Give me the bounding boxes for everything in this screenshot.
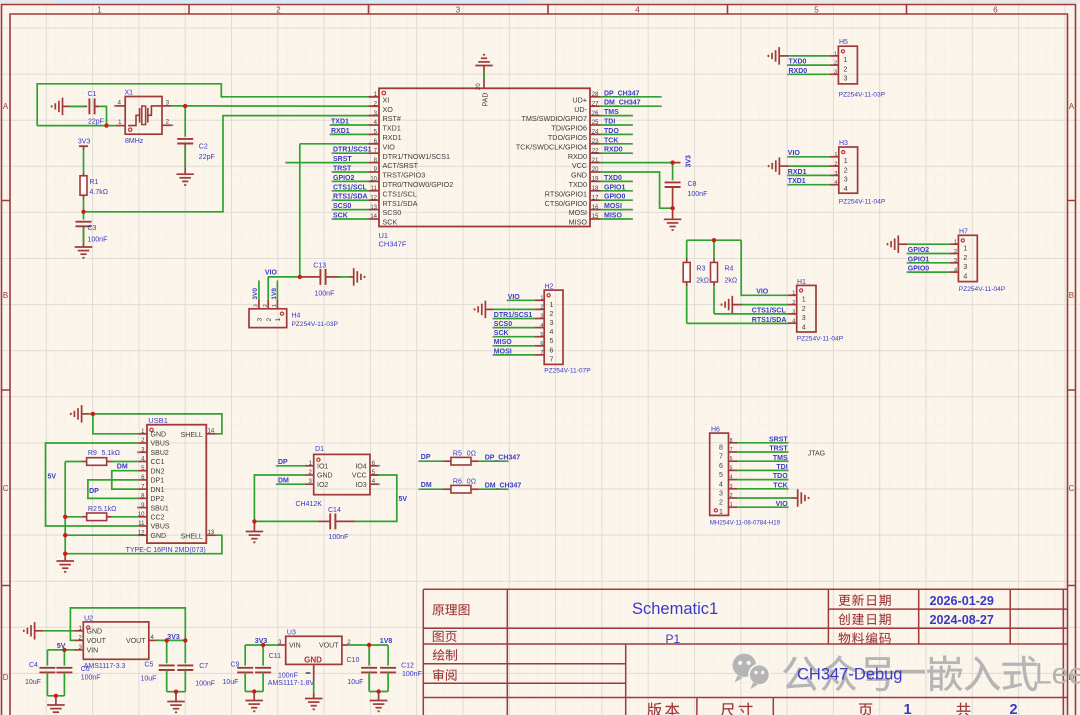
svg-text:24: 24 — [592, 130, 599, 136]
svg-text:22pF: 22pF — [199, 154, 215, 161]
svg-text:3: 3 — [844, 177, 848, 184]
svg-text:3V3: 3V3 — [167, 634, 180, 641]
svg-text:100nF: 100nF — [402, 671, 422, 678]
svg-text:MISO: MISO — [569, 218, 588, 227]
svg-text:TYPE-C 16PIN 2MD(073): TYPE-C 16PIN 2MD(073) — [126, 547, 206, 554]
svg-text:6: 6 — [550, 347, 554, 354]
svg-text:DTR0/TNOW0/GPIO2: DTR0/TNOW0/GPIO2 — [383, 180, 454, 189]
svg-text:SRST: SRST — [333, 156, 352, 163]
svg-text:1: 1 — [834, 152, 837, 158]
svg-text:10uF: 10uF — [223, 679, 239, 686]
svg-text:DP_CH347: DP_CH347 — [485, 455, 521, 462]
svg-text:MISO: MISO — [604, 213, 622, 220]
svg-text:X1: X1 — [125, 89, 134, 96]
svg-text:VIN: VIN — [87, 648, 99, 655]
svg-text:4: 4 — [635, 5, 640, 14]
svg-text:8: 8 — [730, 438, 733, 444]
svg-text:GND: GND — [151, 533, 167, 540]
svg-text:12: 12 — [370, 195, 377, 201]
svg-text:TMS/SWDIO/GPIO7: TMS/SWDIO/GPIO7 — [522, 114, 588, 123]
svg-text:SCS0: SCS0 — [494, 321, 512, 328]
svg-text:SBU2: SBU2 — [151, 450, 169, 457]
svg-text:C: C — [3, 484, 9, 493]
svg-text:4: 4 — [792, 319, 795, 325]
svg-text:23: 23 — [592, 139, 599, 145]
svg-text:3: 3 — [834, 171, 837, 177]
svg-text:3: 3 — [456, 5, 461, 14]
svg-text:SHELL: SHELL — [181, 533, 203, 540]
svg-text:100nF: 100nF — [88, 236, 108, 243]
svg-text:5.1kΩ: 5.1kΩ — [98, 506, 116, 513]
svg-text:C8: C8 — [688, 181, 697, 188]
svg-text:R5: R5 — [453, 450, 462, 457]
svg-text:2: 2 — [550, 311, 554, 318]
svg-text:PZ254V-11-04P: PZ254V-11-04P — [959, 286, 1006, 293]
svg-text:VOUT: VOUT — [126, 638, 146, 645]
svg-text:VCC: VCC — [352, 473, 367, 480]
svg-text:SCS0: SCS0 — [333, 203, 351, 210]
svg-text:C3: C3 — [88, 225, 97, 232]
svg-text:1: 1 — [834, 51, 837, 57]
svg-text:2: 2 — [540, 305, 543, 311]
svg-text:5V: 5V — [399, 496, 408, 503]
svg-text:R9: R9 — [88, 450, 97, 457]
svg-text:VCC: VCC — [572, 161, 587, 170]
svg-text:CC2: CC2 — [151, 514, 165, 521]
svg-text:2: 2 — [844, 167, 848, 174]
svg-text:H4: H4 — [292, 312, 301, 319]
svg-text:3: 3 — [254, 304, 260, 307]
svg-text:7: 7 — [730, 447, 733, 453]
svg-text:PZ254V-11-03P: PZ254V-11-03P — [839, 92, 886, 99]
svg-text:C9: C9 — [231, 662, 240, 669]
svg-text:2: 2 — [792, 300, 795, 306]
svg-text:TRST: TRST — [333, 166, 352, 173]
svg-text:DTR1/SCS1: DTR1/SCS1 — [333, 147, 372, 154]
svg-text:100nF: 100nF — [81, 675, 101, 682]
svg-text:100nF: 100nF — [278, 672, 298, 679]
svg-text:C10: C10 — [347, 657, 360, 664]
svg-text:1V8: 1V8 — [380, 638, 393, 645]
svg-text:2: 2 — [263, 304, 269, 307]
svg-text:IO1: IO1 — [317, 464, 328, 471]
svg-text:MH254V-11-08-0784-H19: MH254V-11-08-0784-H19 — [710, 519, 781, 526]
svg-text:RXD0: RXD0 — [568, 152, 587, 161]
svg-text:C14: C14 — [328, 507, 341, 514]
svg-text:B: B — [3, 291, 8, 300]
svg-text:6: 6 — [540, 341, 543, 347]
svg-text:SRST: SRST — [769, 436, 788, 443]
svg-text:3: 3 — [792, 309, 795, 315]
svg-text:MOSI: MOSI — [604, 203, 622, 210]
svg-text:DP_CH347: DP_CH347 — [604, 90, 640, 97]
svg-text:VIO: VIO — [788, 150, 801, 157]
svg-text:2: 2 — [276, 5, 281, 14]
svg-text:GPIO1: GPIO1 — [604, 184, 626, 191]
svg-text:5: 5 — [814, 5, 819, 14]
svg-text:DN2: DN2 — [151, 468, 165, 475]
svg-text:3V3: 3V3 — [686, 155, 693, 168]
svg-text:DP1: DP1 — [151, 478, 165, 485]
svg-text:A: A — [3, 102, 9, 111]
svg-text:PZ254V-11-04P: PZ254V-11-04P — [839, 199, 886, 206]
svg-text:MOSI: MOSI — [569, 208, 587, 217]
svg-text:TXD0: TXD0 — [604, 175, 622, 182]
svg-text:H6: H6 — [711, 426, 720, 433]
svg-text:4: 4 — [834, 180, 837, 186]
svg-text:C11: C11 — [269, 653, 281, 660]
svg-text:RXD0: RXD0 — [789, 68, 808, 75]
svg-text:1: 1 — [97, 5, 102, 14]
svg-text:TRST/GPIO3: TRST/GPIO3 — [383, 171, 426, 180]
svg-text:11: 11 — [138, 521, 145, 527]
svg-text:5: 5 — [550, 338, 554, 345]
svg-text:PZ254V-11-04P: PZ254V-11-04P — [797, 335, 844, 342]
svg-text:1: 1 — [275, 318, 282, 322]
svg-text:RXD1: RXD1 — [331, 128, 350, 135]
svg-text:4: 4 — [954, 268, 957, 274]
svg-text:DM: DM — [278, 477, 289, 484]
svg-text:2026-01-29: 2026-01-29 — [930, 594, 994, 608]
svg-text:2: 2 — [266, 318, 273, 322]
svg-text:VBUS: VBUS — [151, 441, 170, 448]
svg-text:3: 3 — [834, 70, 837, 76]
svg-text:1: 1 — [963, 246, 967, 253]
svg-text:2: 2 — [730, 493, 733, 499]
svg-text:VIO: VIO — [508, 294, 521, 301]
svg-text:U2: U2 — [84, 615, 93, 622]
svg-text:11: 11 — [371, 186, 378, 192]
svg-text:3V0: 3V0 — [252, 288, 259, 300]
svg-text:100nF: 100nF — [195, 680, 215, 687]
svg-text:2: 2 — [1010, 702, 1018, 715]
svg-text:10uF: 10uF — [141, 676, 157, 683]
svg-text:5.1kΩ: 5.1kΩ — [102, 450, 120, 457]
svg-text:16: 16 — [592, 205, 599, 211]
svg-text:DP: DP — [421, 454, 431, 461]
svg-text:10uF: 10uF — [25, 679, 41, 686]
svg-text:CC1: CC1 — [151, 459, 165, 466]
svg-text:C12: C12 — [401, 663, 414, 670]
svg-text:H7: H7 — [959, 229, 968, 236]
svg-text:PZ254V-11-03P: PZ254V-11-03P — [292, 321, 339, 328]
svg-text:100nF: 100nF — [315, 290, 335, 297]
svg-text:PZ254V-11-07P: PZ254V-11-07P — [544, 367, 591, 374]
svg-text:C2: C2 — [199, 143, 208, 150]
svg-text:3: 3 — [963, 264, 967, 271]
svg-text:4: 4 — [550, 329, 554, 336]
svg-text:19: 19 — [592, 177, 599, 183]
svg-text:VIN: VIN — [289, 643, 301, 650]
svg-text:GND: GND — [317, 473, 333, 480]
svg-text:8MHz: 8MHz — [125, 138, 144, 145]
svg-text:10: 10 — [370, 177, 377, 183]
svg-text:1: 1 — [792, 291, 795, 297]
svg-text:CTS0/GPIO0: CTS0/GPIO0 — [545, 199, 587, 208]
svg-text:TXD0: TXD0 — [789, 59, 807, 66]
svg-text:VIO: VIO — [383, 142, 396, 151]
svg-text:2024-08-27: 2024-08-27 — [930, 613, 994, 627]
svg-text:7: 7 — [550, 356, 554, 363]
svg-text:1: 1 — [904, 702, 912, 715]
svg-text:TDO: TDO — [773, 473, 788, 480]
svg-text:PAD: PAD — [483, 93, 490, 107]
svg-text:5: 5 — [719, 472, 723, 479]
svg-text:UD-: UD- — [574, 105, 587, 114]
svg-text:R6: R6 — [453, 478, 462, 485]
svg-text:IO2: IO2 — [317, 482, 328, 489]
svg-text:18: 18 — [592, 186, 599, 192]
svg-text:100nF: 100nF — [688, 191, 708, 198]
svg-text:3: 3 — [954, 258, 957, 264]
svg-text:0Ω: 0Ω — [467, 450, 476, 457]
svg-text:GND: GND — [571, 171, 587, 180]
svg-text:5V: 5V — [48, 474, 57, 481]
svg-text:17: 17 — [592, 195, 599, 201]
svg-text:3: 3 — [540, 314, 543, 320]
svg-text:14: 14 — [370, 214, 377, 220]
svg-text:MISO: MISO — [494, 339, 512, 346]
svg-text:RTS1/SDA: RTS1/SDA — [752, 317, 787, 324]
svg-text:3: 3 — [257, 318, 264, 322]
svg-text:TXD1: TXD1 — [331, 119, 349, 126]
svg-text:2: 2 — [963, 255, 967, 262]
svg-text:SCK: SCK — [383, 218, 398, 227]
svg-text:RTS1/SDA: RTS1/SDA — [383, 199, 418, 208]
svg-text:3: 3 — [550, 320, 554, 327]
svg-text:DM_CH347: DM_CH347 — [485, 483, 522, 490]
svg-text:8: 8 — [719, 445, 723, 452]
svg-text:CH347-Debug: CH347-Debug — [797, 666, 902, 684]
svg-text:2: 2 — [834, 162, 837, 168]
svg-text:DP: DP — [278, 459, 288, 466]
svg-text:3: 3 — [730, 484, 733, 490]
svg-text:USB1: USB1 — [148, 416, 168, 425]
svg-text:VOUT: VOUT — [319, 643, 339, 650]
svg-text:TXD0: TXD0 — [569, 180, 587, 189]
svg-text:10: 10 — [138, 512, 145, 518]
svg-text:B: B — [1069, 291, 1074, 300]
svg-text:1: 1 — [802, 297, 806, 304]
svg-text:R3: R3 — [696, 265, 705, 272]
svg-text:1: 1 — [540, 296, 543, 302]
svg-text:DM_CH347: DM_CH347 — [604, 100, 641, 107]
svg-text:TDI: TDI — [604, 119, 615, 126]
svg-text:20: 20 — [592, 167, 599, 173]
svg-text:CH347F: CH347F — [379, 240, 407, 249]
svg-text:GND: GND — [87, 629, 103, 636]
svg-text:C13: C13 — [313, 262, 326, 269]
svg-text:100nF: 100nF — [329, 534, 349, 541]
svg-text:P1: P1 — [666, 632, 681, 646]
svg-text:2: 2 — [954, 249, 957, 255]
svg-text:TCK: TCK — [773, 482, 787, 489]
svg-text:DN1: DN1 — [151, 487, 165, 494]
svg-text:TCK: TCK — [604, 137, 618, 144]
svg-text:JTAG: JTAG — [808, 451, 825, 458]
svg-text:10uF: 10uF — [347, 679, 363, 686]
svg-text:4: 4 — [719, 481, 723, 488]
svg-text:1: 1 — [954, 240, 957, 246]
svg-text:0Ω: 0Ω — [467, 478, 476, 485]
svg-text:RST#: RST# — [383, 114, 401, 123]
svg-text:3: 3 — [719, 491, 723, 498]
svg-text:GND: GND — [151, 432, 167, 439]
svg-text:25: 25 — [592, 120, 599, 126]
svg-text:28: 28 — [592, 92, 599, 98]
svg-text:TXD1: TXD1 — [788, 178, 806, 185]
svg-text:CTS1/SCL: CTS1/SCL — [752, 307, 787, 314]
svg-text:H5: H5 — [839, 39, 848, 46]
svg-text:6: 6 — [719, 463, 723, 470]
svg-text:VIO: VIO — [265, 270, 278, 277]
svg-text:GPIO2: GPIO2 — [908, 247, 930, 254]
svg-text:GND: GND — [304, 655, 322, 664]
svg-text:6: 6 — [993, 5, 998, 14]
svg-text:2: 2 — [719, 500, 723, 507]
svg-text:CTS1/SCL: CTS1/SCL — [333, 184, 368, 191]
svg-text:1V8: 1V8 — [271, 288, 278, 300]
svg-text:21: 21 — [592, 158, 599, 164]
svg-text:TDO: TDO — [604, 128, 619, 135]
svg-text:XI: XI — [383, 95, 390, 104]
svg-text:4: 4 — [844, 186, 848, 193]
svg-text:6: 6 — [730, 456, 733, 462]
svg-text:AMS1117-3.3: AMS1117-3.3 — [84, 663, 126, 670]
svg-text:C: C — [1069, 484, 1075, 493]
svg-text:4: 4 — [963, 273, 967, 280]
svg-text:7: 7 — [719, 454, 723, 461]
svg-text:D: D — [3, 673, 9, 682]
svg-text:1: 1 — [844, 57, 848, 64]
svg-text:CTS1/SCL: CTS1/SCL — [383, 189, 417, 198]
svg-text:VIO: VIO — [776, 501, 789, 508]
svg-text:1: 1 — [550, 302, 554, 309]
svg-text:AMS1117-1.8V: AMS1117-1.8V — [268, 680, 315, 687]
svg-text:H1: H1 — [797, 279, 806, 286]
svg-text:CH412K: CH412K — [296, 501, 323, 508]
svg-text:5: 5 — [540, 332, 543, 338]
svg-text:22pF: 22pF — [88, 118, 104, 125]
svg-text:MOSI: MOSI — [494, 348, 512, 355]
svg-text:4: 4 — [730, 475, 733, 481]
svg-text:Lee: Lee — [1035, 658, 1080, 691]
svg-text:TDI/GPIO6: TDI/GPIO6 — [551, 124, 587, 133]
svg-text:4: 4 — [540, 323, 543, 329]
svg-text:RXD1: RXD1 — [383, 133, 402, 142]
svg-text:26: 26 — [592, 111, 599, 117]
svg-text:RXD1: RXD1 — [788, 169, 807, 176]
svg-text:3V3: 3V3 — [78, 138, 91, 145]
svg-text:TXD1: TXD1 — [383, 124, 401, 133]
svg-text:U3: U3 — [287, 630, 296, 637]
svg-text:DTR1/SCS1: DTR1/SCS1 — [494, 312, 533, 319]
svg-text:GPIO2: GPIO2 — [333, 175, 355, 182]
svg-text:DP: DP — [89, 488, 99, 495]
svg-text:C1: C1 — [88, 91, 97, 98]
svg-text:D1: D1 — [315, 446, 324, 453]
svg-text:R2: R2 — [88, 506, 97, 513]
svg-text:Schematic1: Schematic1 — [632, 600, 718, 618]
svg-text:VIO: VIO — [756, 289, 769, 296]
svg-text:15: 15 — [592, 214, 599, 220]
svg-text:1: 1 — [730, 502, 733, 508]
svg-text:5: 5 — [730, 465, 733, 471]
svg-text:13: 13 — [370, 205, 377, 211]
svg-text:TMS: TMS — [773, 455, 788, 462]
svg-text:DM: DM — [421, 482, 432, 489]
svg-text:RXD0: RXD0 — [604, 147, 623, 154]
svg-text:A: A — [1069, 102, 1075, 111]
svg-text:R1: R1 — [90, 179, 99, 186]
svg-text:H2: H2 — [545, 283, 554, 290]
svg-text:C4: C4 — [29, 662, 38, 669]
svg-text:XO: XO — [383, 105, 394, 114]
svg-text:1: 1 — [844, 158, 848, 165]
svg-text:22: 22 — [592, 148, 599, 154]
svg-text:20: 20 — [476, 83, 482, 90]
svg-text:H3: H3 — [839, 140, 848, 147]
svg-text:1: 1 — [719, 509, 723, 516]
svg-text:VBUS: VBUS — [151, 524, 170, 531]
svg-text:SCK: SCK — [494, 330, 509, 337]
svg-text:IO3: IO3 — [355, 482, 366, 489]
svg-text:SCK: SCK — [333, 213, 348, 220]
svg-text:2kΩ: 2kΩ — [725, 278, 738, 285]
svg-text:SCS0: SCS0 — [383, 208, 402, 217]
svg-text:3: 3 — [802, 315, 806, 322]
svg-text:2: 2 — [834, 61, 837, 67]
svg-text:2: 2 — [802, 306, 806, 313]
svg-text:4.7kΩ: 4.7kΩ — [90, 189, 108, 196]
svg-text:7: 7 — [540, 350, 543, 356]
svg-text:4: 4 — [802, 325, 806, 332]
svg-text:27: 27 — [592, 101, 599, 107]
svg-text:UD+: UD+ — [572, 95, 587, 104]
svg-text:GPIO1: GPIO1 — [908, 256, 930, 263]
svg-text:ACT/SRST: ACT/SRST — [383, 161, 419, 170]
svg-text:2kΩ: 2kΩ — [696, 278, 709, 285]
svg-text:DM: DM — [117, 464, 128, 471]
svg-text:VOUT: VOUT — [87, 638, 107, 645]
svg-text:TDO/GPIO5: TDO/GPIO5 — [548, 133, 587, 142]
svg-text:2: 2 — [844, 66, 848, 73]
svg-text:DTR1/TNOW1/SCS1: DTR1/TNOW1/SCS1 — [383, 152, 451, 161]
svg-text:C7: C7 — [199, 663, 208, 670]
svg-text:SHELL: SHELL — [181, 432, 203, 439]
svg-text:RTS0/GPIO1: RTS0/GPIO1 — [545, 189, 587, 198]
svg-text:12: 12 — [138, 530, 145, 536]
svg-text:DP2: DP2 — [151, 496, 165, 503]
svg-text:TDI: TDI — [776, 464, 787, 471]
svg-text:TRST: TRST — [769, 446, 788, 453]
svg-text:GPIO0: GPIO0 — [908, 266, 930, 273]
svg-text:RTS1/SDA: RTS1/SDA — [333, 194, 368, 201]
svg-text:TCK/SWDCLK/GPIO4: TCK/SWDCLK/GPIO4 — [516, 142, 587, 151]
svg-text:R4: R4 — [725, 265, 734, 272]
svg-text:3: 3 — [844, 76, 848, 83]
svg-text:TMS: TMS — [604, 109, 619, 116]
svg-text:1: 1 — [272, 304, 278, 307]
svg-text:GPIO0: GPIO0 — [604, 194, 626, 201]
svg-text:IO4: IO4 — [355, 464, 366, 471]
svg-text:SBU1: SBU1 — [151, 505, 169, 512]
svg-text:C5: C5 — [144, 662, 153, 669]
